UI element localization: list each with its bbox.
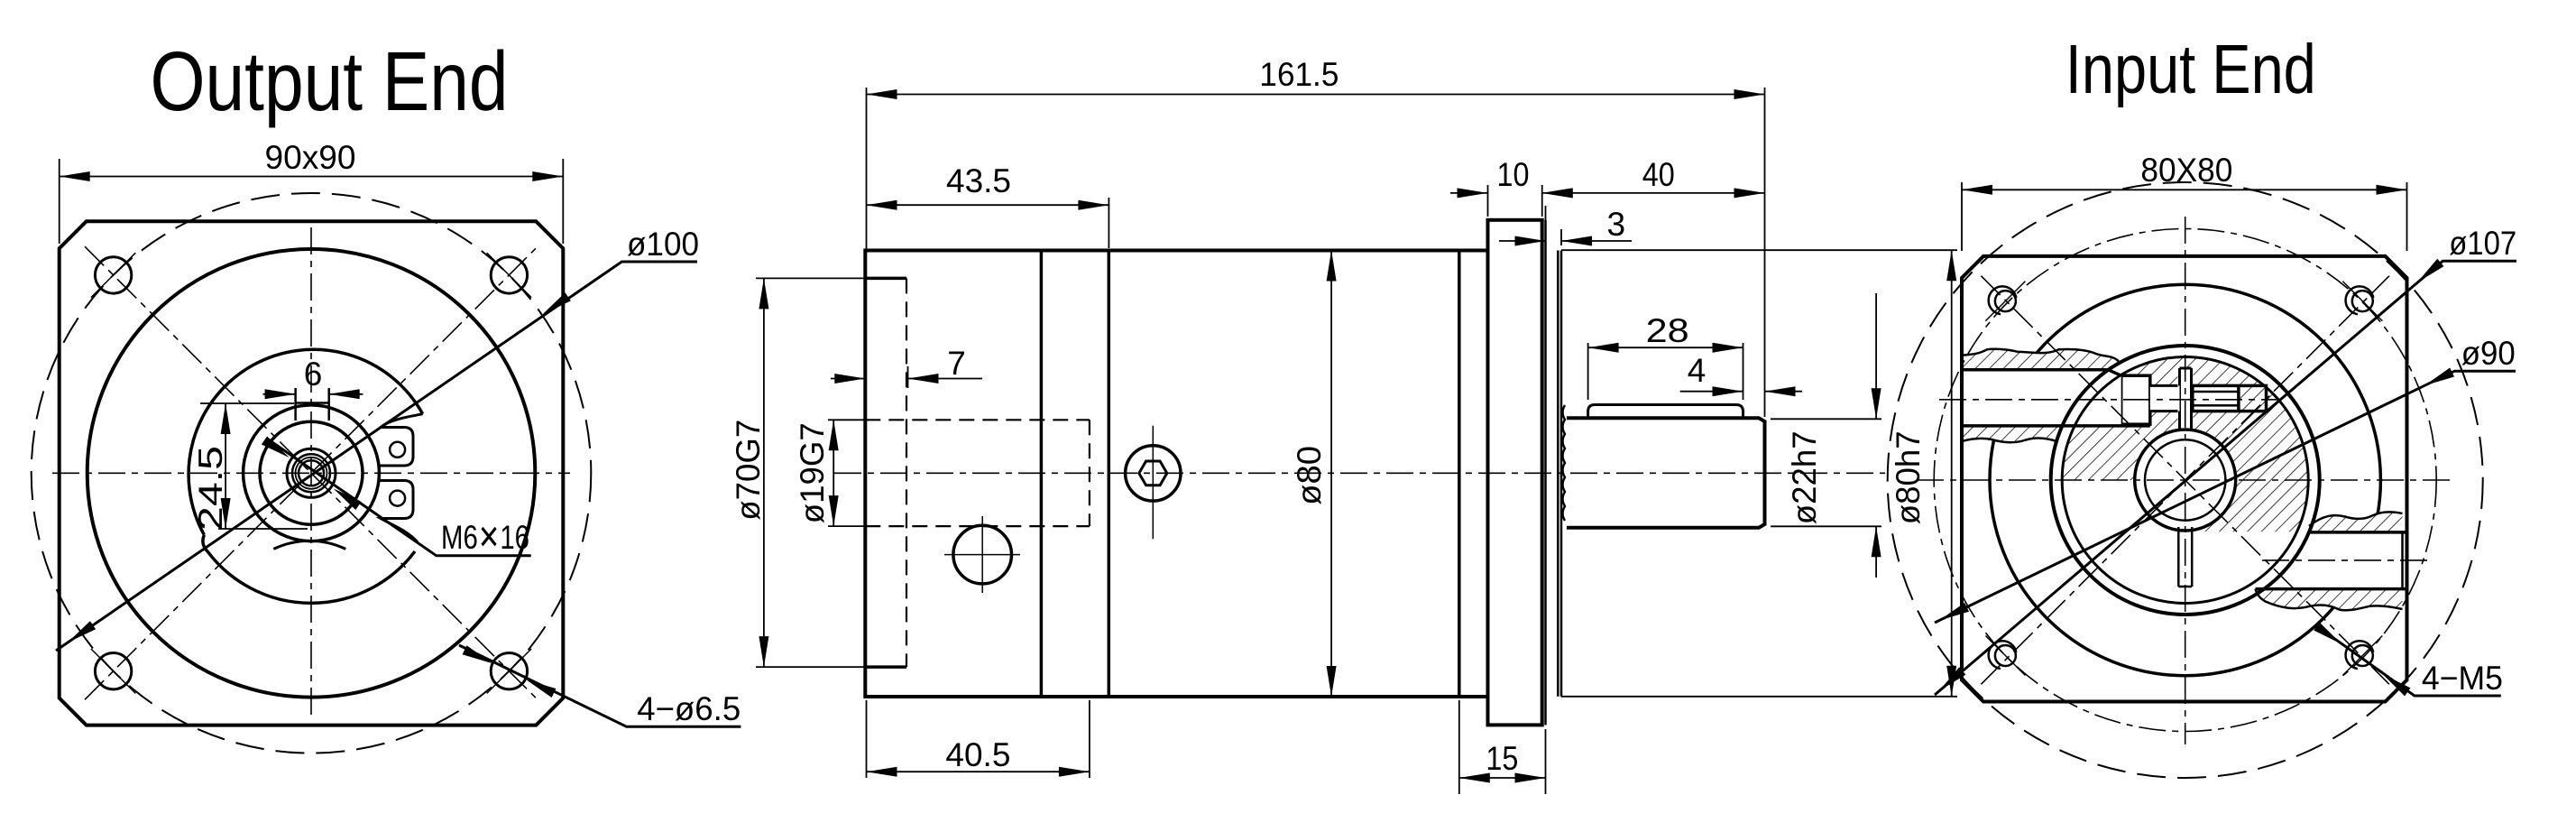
screw vertical centerline <box>1152 426 1154 540</box>
leader M6x16 <box>267 439 531 556</box>
svg-text:M6✕16: M6✕16 <box>441 519 529 556</box>
keyway channel white <box>2150 385 2180 411</box>
clamp access hole <box>953 525 1012 584</box>
diagonal centerline BL-TR <box>85 246 538 699</box>
svg-text:4−ø6.5: 4−ø6.5 <box>637 690 741 727</box>
upper-left stub white hole <box>1962 370 2121 426</box>
output flange square 90x90 <box>60 221 564 725</box>
hub bump arc lower right <box>203 535 415 604</box>
hub circle with gap at right <box>189 349 423 534</box>
spigot circle dia70 <box>1990 284 2380 675</box>
bolt hole bottom-right <box>491 653 527 689</box>
bolt hole tick top-left <box>1985 282 2025 321</box>
bolt circle dia 100 dashed <box>32 193 592 753</box>
bore circle dia19 <box>2135 430 2236 531</box>
dim 40.5 <box>866 700 868 778</box>
slot bottom white <box>2178 523 2192 587</box>
leader dia 100 <box>56 262 697 651</box>
dim 80X80 <box>1961 182 1963 251</box>
leader 4-M5 <box>2318 627 2501 696</box>
upper-left stub centerline <box>1939 399 2277 401</box>
lower-right stub hatch above <box>2309 512 2403 532</box>
bore inner circle <box>2145 439 2225 520</box>
dim dia22h7 <box>1771 418 1881 420</box>
svg-text:161.5: 161.5 <box>1259 56 1339 93</box>
svg-text:40: 40 <box>1642 156 1675 193</box>
axis centerline <box>834 472 1885 474</box>
dim 90x90 <box>59 159 60 244</box>
rear cover joint line <box>1458 251 1461 698</box>
diagonal centerline TL-BR <box>1981 276 2389 685</box>
tab screw hole upper <box>390 442 405 458</box>
tab lower <box>380 481 418 543</box>
hub outer circle <box>2051 346 2320 615</box>
lower-right stub white hole <box>2291 532 2407 589</box>
svg-text:7: 7 <box>947 345 966 382</box>
svg-text:6: 6 <box>304 356 323 393</box>
horizontal centerline <box>52 472 570 474</box>
thread minor circle thin <box>296 458 327 489</box>
clamp screw socket head <box>1126 446 1181 501</box>
housing joint line 2 <box>1108 251 1111 698</box>
pilot collar dia80h7 <box>1557 251 1559 697</box>
svg-text:3: 3 <box>1607 206 1626 243</box>
housing joint line 1 <box>1040 251 1044 698</box>
svg-text:10: 10 <box>1497 156 1530 193</box>
svg-text:43.5: 43.5 <box>946 162 1011 199</box>
diagonal centerline TL-BR <box>85 246 538 699</box>
dim 10 <box>1487 185 1489 217</box>
dim 161.5 <box>866 88 868 253</box>
dim 4 <box>1680 391 1743 393</box>
wavy spring washer at shaft root <box>1563 405 1566 521</box>
tapped hole M5 top-right <box>2352 291 2373 311</box>
dim 28 <box>1587 343 1589 400</box>
white mask lower-right below stub top wall <box>2185 532 2319 617</box>
white mask lower-left quadrant <box>2055 480 2185 624</box>
bore white disk <box>2135 430 2236 531</box>
bolt hole tick bottom-right <box>2342 636 2382 676</box>
svg-text:ø107: ø107 <box>2449 225 2516 262</box>
tapped hole chamfer circle <box>287 448 336 497</box>
keyway circle dia 24.5 <box>244 405 380 541</box>
bolt hole tick top-right <box>2342 282 2382 321</box>
dim 24.5 <box>200 402 294 404</box>
leader dia107 <box>1935 261 2516 695</box>
hex socket <box>1139 461 1167 485</box>
dashed circle dia107 <box>1888 182 2483 778</box>
partial arc below center <box>273 541 345 549</box>
tab screw hole lower <box>390 491 405 506</box>
bolt circle dash-dot <box>1934 229 2436 732</box>
bolt hole top-left <box>95 257 131 293</box>
dim 3 <box>1545 206 1547 220</box>
dim dia19G7 <box>828 419 864 421</box>
svg-text:ø80h7: ø80h7 <box>1890 430 1927 524</box>
dim dia80 <box>1330 251 1332 698</box>
thread circle M6 <box>292 454 330 492</box>
bore dia19G7 hidden lines <box>865 419 1090 421</box>
diagonal centerline BL-TR <box>1981 276 2389 685</box>
svg-text:28: 28 <box>1646 312 1689 349</box>
svg-text:ø90: ø90 <box>2461 335 2516 372</box>
tapped hole M5 top-left <box>1995 291 2016 311</box>
lower-right stub centerline <box>2262 559 2428 561</box>
center hole circle <box>299 460 324 485</box>
dim 15 <box>1458 700 1460 794</box>
keyway outer rect <box>2193 385 2267 411</box>
lower-right stub hatch below <box>2256 589 2403 611</box>
leader 4-dia6.5 <box>459 645 741 726</box>
lower-right stub walls <box>2309 531 2407 534</box>
svg-text:ø70G7: ø70G7 <box>730 420 767 521</box>
input flange square 80X80 <box>1962 256 2407 702</box>
svg-text:4: 4 <box>1688 352 1707 389</box>
spigot recess dia70G7 edges <box>865 277 906 281</box>
svg-text:4−M5: 4−M5 <box>2422 660 2503 697</box>
clamp screw block <box>2121 375 2150 424</box>
svg-text:Input End: Input End <box>2065 31 2316 108</box>
tapped hole M5 bottom-left <box>1995 645 2016 666</box>
bolt hole tick bottom-left <box>1985 636 2025 676</box>
keyway slot lines <box>294 388 297 421</box>
circle dia 18.5 <box>260 421 363 524</box>
vertical centerline <box>2185 217 2186 744</box>
svg-text:15: 15 <box>1486 740 1518 777</box>
tapped hole M5 bottom-right <box>2352 645 2373 666</box>
spigot recess bottom hidden <box>906 278 907 667</box>
dim dia80h7 <box>1561 249 1957 251</box>
bolt hole top-right <box>491 257 527 293</box>
tab upper <box>380 414 422 466</box>
horizontal centerline <box>1917 479 2453 481</box>
upper-left stub hatch below <box>1962 426 2062 442</box>
gearbox body outline <box>865 251 1487 698</box>
hub ring inner circle <box>2062 357 2308 604</box>
svg-text:80X80: 80X80 <box>2140 152 2232 189</box>
dim dia70G7 <box>756 277 864 279</box>
svg-text:90x90: 90x90 <box>265 139 356 176</box>
flange right face second line <box>1544 220 1547 726</box>
lower-right stub end inner line <box>2401 532 2404 589</box>
upper-left stub hatch above <box>1962 349 2120 370</box>
svg-text:ø100: ø100 <box>627 226 699 263</box>
svg-text:ø80: ø80 <box>1291 446 1328 505</box>
svg-text:ø19G7: ø19G7 <box>794 422 831 523</box>
bolt hole bottom-left <box>95 653 131 689</box>
vertical centerline <box>310 227 312 721</box>
output shaft <box>1567 418 1765 527</box>
upper-left stub walls <box>1962 368 2108 372</box>
svg-text:Output End: Output End <box>151 34 509 128</box>
svg-text:24.5: 24.5 <box>192 446 229 531</box>
output flange plate <box>1488 220 1542 726</box>
section hatch disk <box>2062 357 2308 604</box>
key cross-section inner <box>2193 392 2239 405</box>
dim 6 keyway width <box>263 393 296 395</box>
leader dia90 <box>1935 371 2516 623</box>
svg-text:ø22h7: ø22h7 <box>1786 430 1823 524</box>
dim 43.5 <box>1108 198 1109 248</box>
svg-text:40.5: 40.5 <box>945 736 1010 773</box>
slot top vertical white <box>2178 367 2194 430</box>
shaft key <box>1588 405 1743 419</box>
dim 40 <box>1542 192 1765 194</box>
dim 7 <box>907 366 909 388</box>
pilot circle dia 80 <box>87 249 536 698</box>
